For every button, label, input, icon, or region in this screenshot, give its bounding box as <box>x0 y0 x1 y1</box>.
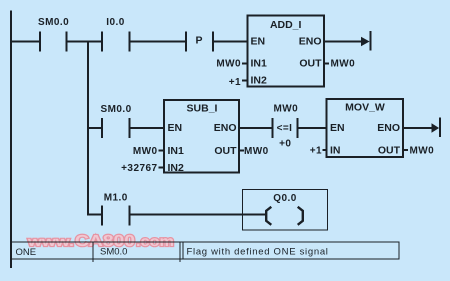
svg-text:MW0: MW0 <box>133 146 158 157</box>
contact M1.0 bar1 <box>101 206 103 226</box>
coil left parenthesis <box>266 207 271 225</box>
wire rung3: contact M1.0 to coil <box>130 214 266 216</box>
op block SUB_I box U2 <box>164 100 239 173</box>
contact I0.0 bar1 <box>101 32 103 52</box>
svg-text:IN: IN <box>330 145 341 157</box>
table top border <box>10 242 400 243</box>
selection box around coil Q0.0 <box>243 190 328 231</box>
contact SM0.0 rung2 bar1 <box>101 118 103 138</box>
svg-text:EN: EN <box>251 36 266 48</box>
contact M1.0 bar2 <box>128 206 130 226</box>
svg-text:+1: +1 <box>310 146 322 157</box>
op block ADD_I box U1 <box>248 16 325 87</box>
svg-text:EN: EN <box>330 122 345 134</box>
wire rung3: branch corner to contact M1.0 <box>87 214 101 216</box>
table divider 2b <box>183 242 184 260</box>
wire ENO ADD_I to arrow <box>324 41 362 43</box>
svg-text:Flag with defined ONE signal: Flag with defined ONE signal <box>187 247 329 258</box>
contact P bar2 <box>212 32 214 52</box>
op block MOV_W box U3 <box>327 99 404 157</box>
svg-text:+0: +0 <box>279 139 291 150</box>
svg-text:ENO: ENO <box>377 122 400 134</box>
svg-text:ADD_I: ADD_I <box>270 19 302 31</box>
contact I0.0 bar2 <box>128 32 130 52</box>
comparator bar1 <box>272 118 274 138</box>
svg-text:OUT: OUT <box>299 58 322 70</box>
wire rung1: P contact to ADD_I box <box>214 41 247 43</box>
table divider 1 <box>93 242 94 263</box>
rung 3 <box>87 206 266 226</box>
arrow head rung1 <box>361 37 370 46</box>
wire rung1: I0.0 to P contact <box>130 41 185 43</box>
stub wire IN1 (ADD_I) <box>242 62 248 64</box>
svg-text:I0.0: I0.0 <box>106 17 124 28</box>
coil right parenthesis <box>298 207 303 225</box>
svg-text:MW0: MW0 <box>244 146 269 157</box>
svg-text:OUT: OUT <box>214 145 237 157</box>
svg-text:MOV_W: MOV_W <box>345 102 385 114</box>
table right border <box>399 242 400 260</box>
wire rung2: branch to contact SM0.0 <box>89 127 101 129</box>
svg-text:MW0: MW0 <box>216 59 241 70</box>
svg-text:<=I: <=I <box>277 123 293 134</box>
svg-text:EN: EN <box>168 122 183 134</box>
stub wire IN2 (SUB_I) <box>159 167 165 169</box>
branch wire vertical <box>87 41 89 216</box>
table divider 2 <box>180 242 181 263</box>
stub wire OUT (SUB_I) <box>240 150 244 152</box>
stub wire OUT (ADD_I) <box>324 62 329 64</box>
comparator contact <=I <box>272 118 327 138</box>
svg-text:MW0: MW0 <box>273 104 298 115</box>
wire rung1: SM0.0 to I0.0 (through branch junction) <box>67 41 101 43</box>
svg-text:+32767: +32767 <box>121 163 157 174</box>
svg-text:M1.0: M1.0 <box>104 193 128 204</box>
svg-text:SM0.0: SM0.0 <box>101 104 132 115</box>
stub wire IN1 (SUB_I) <box>159 150 165 152</box>
svg-text:IN2: IN2 <box>168 162 185 174</box>
svg-text:IN2: IN2 <box>251 75 268 87</box>
svg-text:ENO: ENO <box>214 122 237 134</box>
comment table <box>10 242 400 263</box>
left power rail <box>10 11 12 269</box>
svg-text:P: P <box>195 35 202 47</box>
svg-text:OUT: OUT <box>378 145 401 157</box>
wire comparator to MOV_W <box>298 127 326 129</box>
arrow head rung2 <box>432 123 440 132</box>
contact SM0.0 bar1 <box>39 32 41 52</box>
watermark www.CA800.com <box>27 233 174 250</box>
table bottom border <box>10 259 400 260</box>
svg-text:SM0.0: SM0.0 <box>100 247 127 258</box>
wire rung1: rail to contact SM0.0 <box>12 41 39 43</box>
svg-text:+1: +1 <box>229 77 241 88</box>
rung 2 <box>89 118 164 138</box>
arrow bar rung2 <box>439 118 441 138</box>
wire ENO SUB_I to comparator <box>240 127 272 129</box>
contact P bar1 <box>185 32 187 52</box>
comparator bar2 <box>296 118 298 138</box>
svg-text:ENO: ENO <box>299 36 322 48</box>
svg-text:IN1: IN1 <box>251 58 268 70</box>
stub wire IN (MOV_W) <box>323 149 327 151</box>
contact SM0.0 bar2 <box>65 32 67 52</box>
svg-text:Q0.0: Q0.0 <box>273 193 296 204</box>
svg-text:SUB_I: SUB_I <box>187 103 218 115</box>
contact SM0.0 rung2 bar2 <box>128 118 130 138</box>
stub wire OUT (MOV_W) <box>404 149 409 151</box>
svg-text:SM0.0: SM0.0 <box>38 17 69 28</box>
stub wire IN2 (ADD_I) <box>242 79 248 81</box>
svg-text:IN1: IN1 <box>168 145 185 157</box>
svg-text:ONE: ONE <box>16 247 37 258</box>
wire ENO MOV_W to arrow <box>404 127 433 129</box>
arrow bar rung1 <box>370 31 372 51</box>
svg-text:MW0: MW0 <box>331 59 356 70</box>
wire rung2: contact to SUB_I box <box>130 127 164 129</box>
svg-text:MW0: MW0 <box>410 146 435 157</box>
